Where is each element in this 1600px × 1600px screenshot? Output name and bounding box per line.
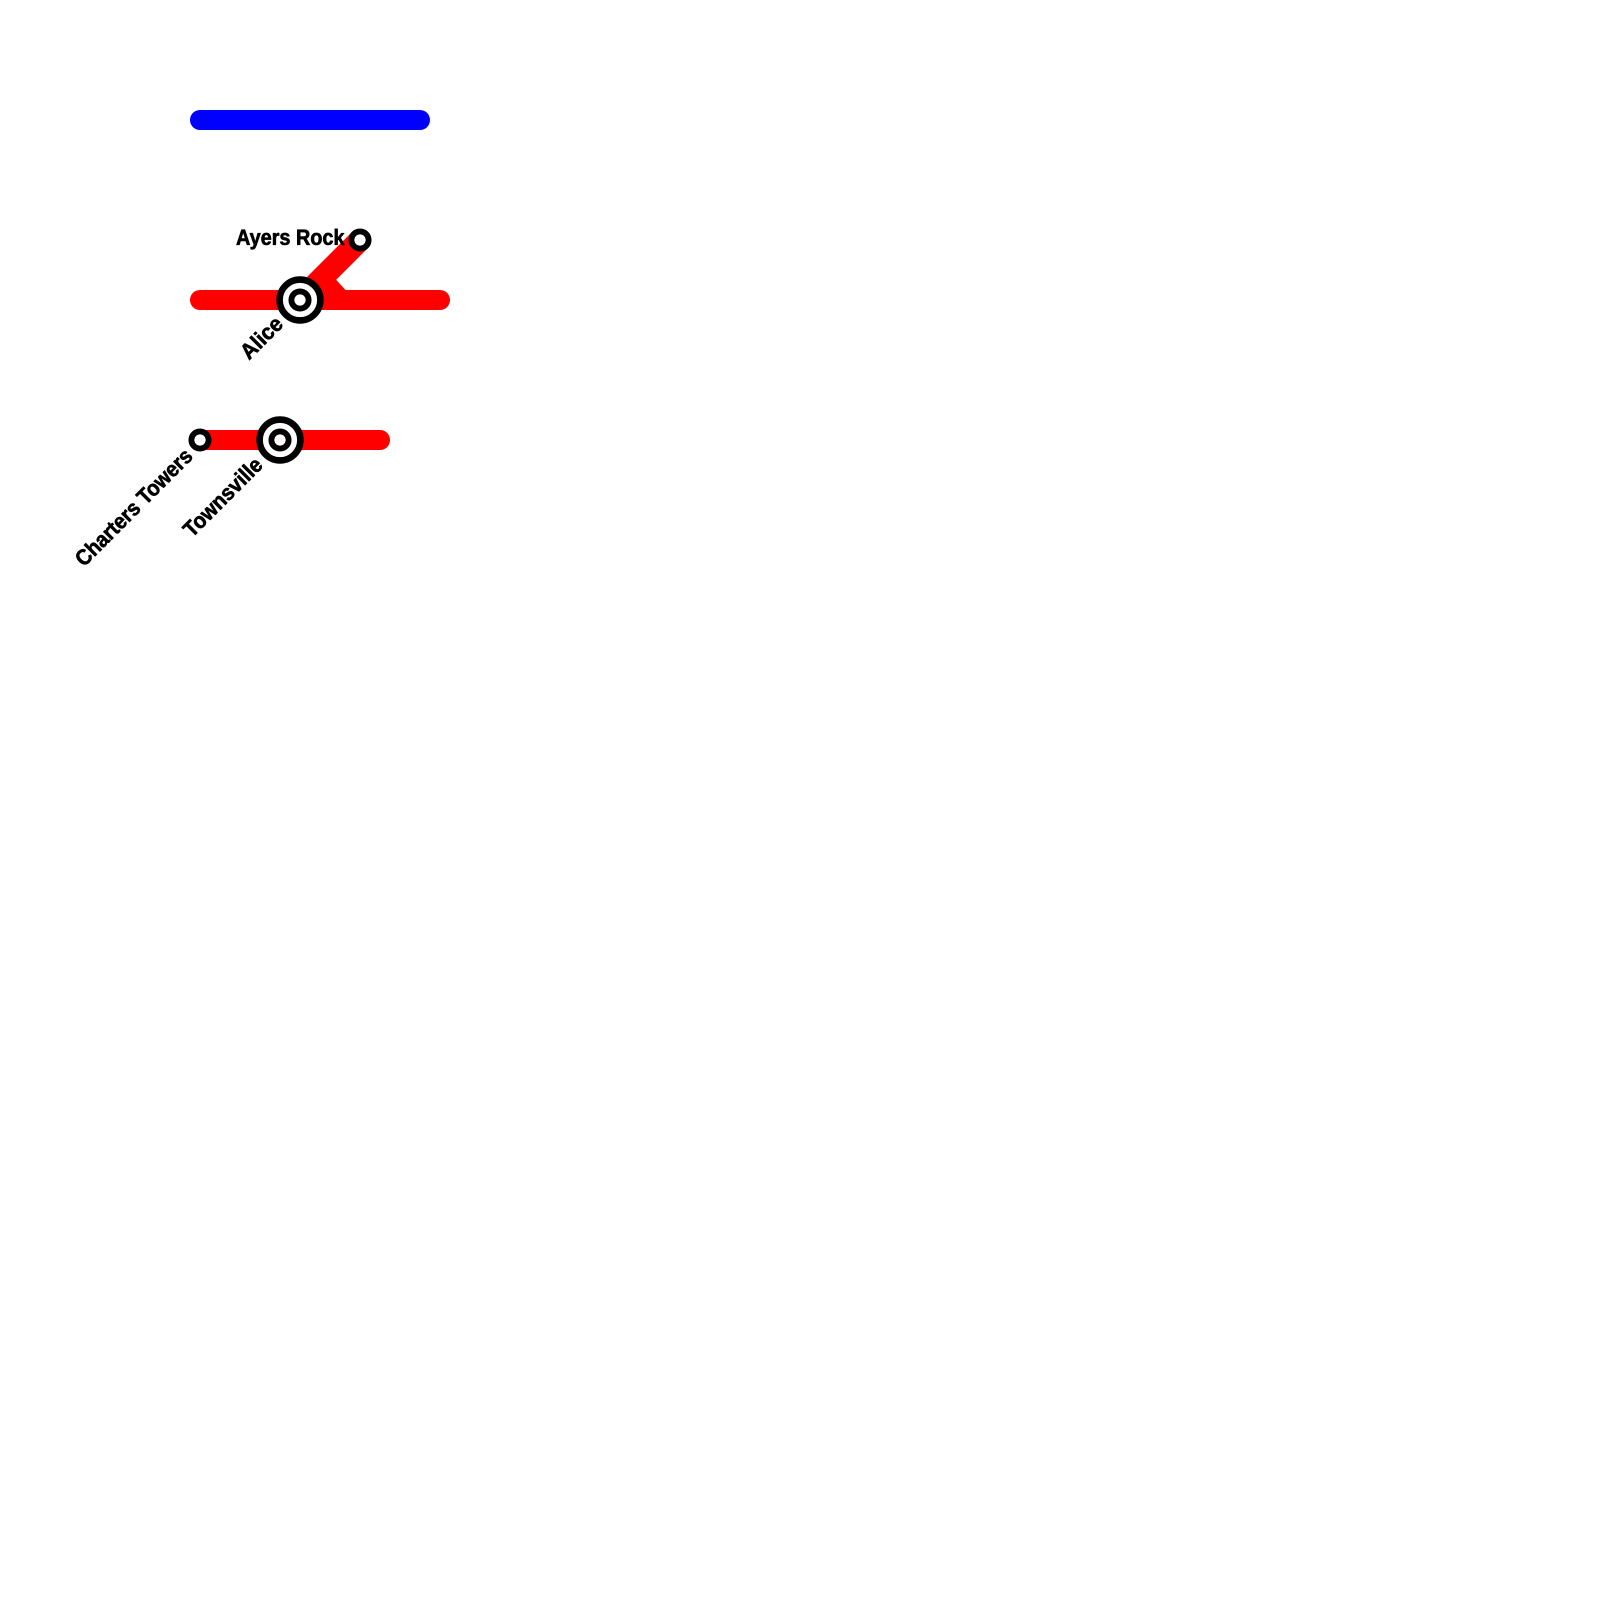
station Charters Towers marker [191,431,208,448]
red line 1 horizontal segment [200,290,440,310]
red junction fill at Alice branch [322,280,347,292]
red line 1 diagonal branch to Ayers Rock [300,240,360,300]
interchange Alice inner ring [291,291,308,308]
label Ayers Rock [237,229,345,250]
interchange Townsville inner ring [271,431,288,448]
blue metro line [200,110,420,130]
label Charters Towers [73,447,193,567]
label Townsville [181,456,264,539]
interchange Alice outer ring [280,280,321,321]
station Ayers Rock marker [351,231,368,248]
red line 2 horizontal segment [200,430,380,450]
label Alice [238,315,284,361]
interchange Townsville outer ring [260,420,301,461]
